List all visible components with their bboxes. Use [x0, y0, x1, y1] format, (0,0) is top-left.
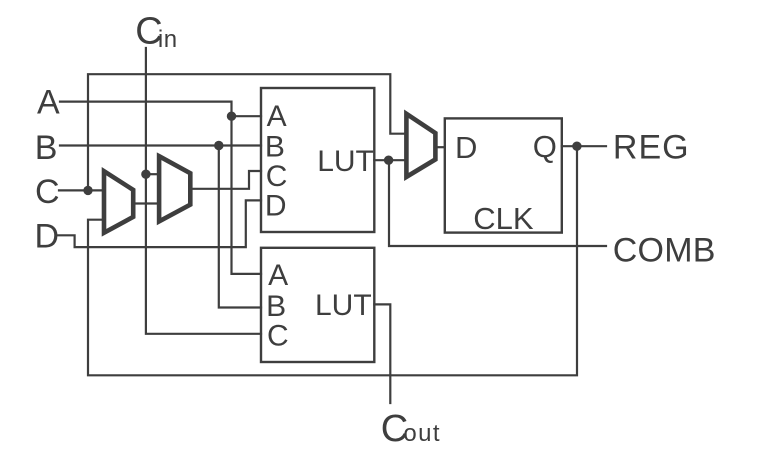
junction dot A branch	[227, 112, 236, 121]
wire A input to LUT1 A and LUT2 A	[60, 102, 261, 274]
svg-text:A: A	[268, 259, 288, 292]
wire mux M3 output to flip-flop D input	[435, 146, 444, 148]
mux M1	[104, 171, 133, 233]
svg-text:LUT: LUT	[317, 145, 374, 178]
mux M2	[159, 156, 190, 221]
svg-text:B: B	[35, 129, 58, 167]
LUT2 box (lower 3-input LUT)	[261, 248, 374, 362]
svg-text:LUT: LUT	[315, 289, 372, 322]
junction dot Cin/mux M2	[141, 170, 150, 179]
svg-text:C: C	[266, 160, 288, 193]
svg-text:D: D	[35, 217, 60, 255]
svg-text:out: out	[403, 420, 441, 447]
svg-text:Q: Q	[533, 129, 557, 164]
svg-text:A: A	[267, 100, 287, 133]
wire C input to mux M1 upper input	[59, 189, 104, 191]
junction dot LUT1 output	[384, 156, 393, 165]
wire mux M2 output to LUT1 C input	[190, 171, 261, 189]
svg-text:C: C	[267, 320, 289, 353]
svg-text:REG: REG	[613, 128, 690, 166]
svg-text:B: B	[266, 290, 286, 323]
svg-text:B: B	[265, 131, 285, 164]
svg-text:in: in	[158, 26, 178, 53]
wire Cin to mux M2 upper input	[146, 173, 159, 175]
mux M3	[406, 114, 435, 177]
svg-text:CLK: CLK	[473, 201, 534, 236]
junction dot B branch	[214, 141, 223, 150]
wire B input to LUT1 B and LUT2 B	[60, 146, 261, 308]
flip-flop U1 box	[445, 118, 562, 232]
svg-text:D: D	[455, 130, 477, 165]
wire LUT1 output down to COMB	[389, 160, 606, 246]
wire D input to LUT1 D	[58, 200, 261, 247]
junction dot REG feedback	[572, 142, 581, 151]
wire Q output to REG	[562, 145, 606, 147]
wire mux M1 output to mux M2 lower input	[133, 202, 159, 204]
wire LUT2 output to Cout	[374, 304, 390, 403]
LUT1 box (upper 4-input LUT)	[261, 88, 374, 232]
svg-text:A: A	[37, 83, 60, 121]
wire LUT1 output to mux M3 lower input	[374, 159, 406, 161]
junction dot C/bypass	[83, 186, 92, 195]
wire Cin vertical down to lower LUT C input	[146, 48, 261, 334]
svg-text:C: C	[35, 173, 60, 211]
wire feedback from REG dot to bottom and mux M1 lower input	[88, 146, 577, 375]
svg-text:D: D	[265, 189, 287, 222]
svg-text:COMB: COMB	[613, 232, 716, 270]
wire C bypass to mux M3 upper input	[88, 74, 406, 190]
